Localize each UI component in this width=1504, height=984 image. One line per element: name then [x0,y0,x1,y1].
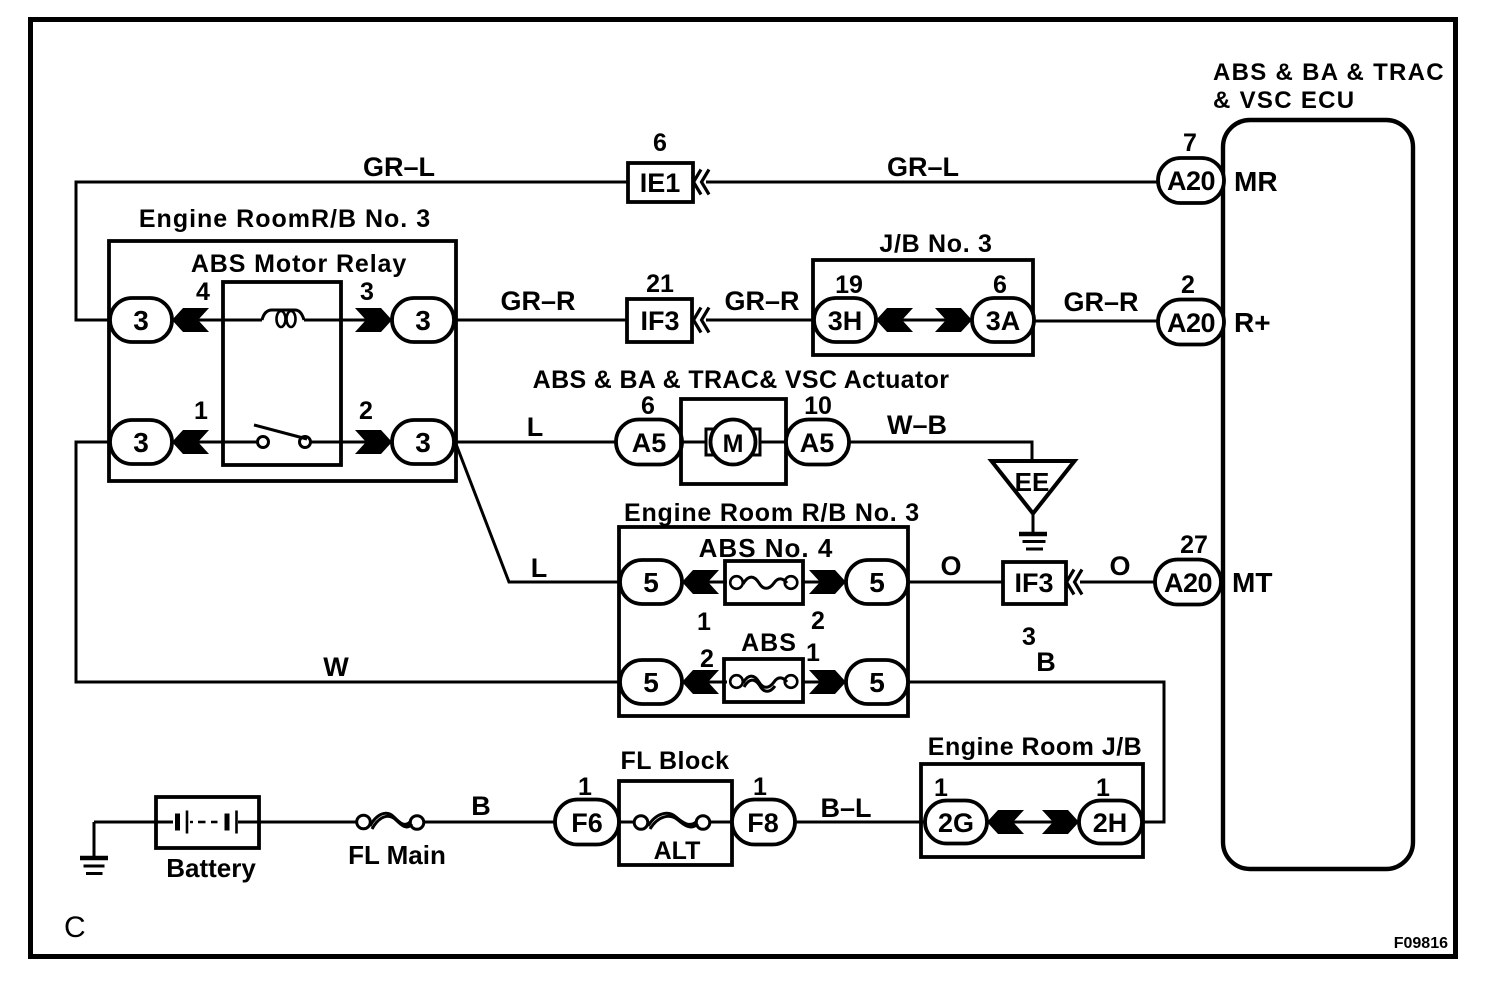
wire O segment 1 [908,581,1003,584]
svg-text:O: O [1109,551,1130,581]
svg-text:L: L [531,553,548,583]
svg-text:3: 3 [415,427,431,458]
connector oval 2H pin 1 [1079,774,1142,844]
connector oval 5 (ABS left, pin 2) [620,645,714,704]
svg-text:21: 21 [646,270,674,298]
svg-text:3: 3 [133,427,149,458]
arrow into pin 3 [355,308,392,332]
arrow into 2H [1042,810,1079,834]
fuse ABS No. 4 [725,561,803,604]
wire battery to FL Main [259,821,357,824]
svg-text:7: 7 [1183,129,1197,157]
svg-text:6: 6 [641,392,655,420]
svg-text:ABS & BA & TRAC& VSC Actuator: ABS & BA & TRAC& VSC Actuator [533,366,950,394]
svg-text:& VSC ECU: & VSC ECU [1213,87,1355,114]
connector chevrons at IF3 [694,308,710,333]
svg-text:5: 5 [869,567,885,598]
ground EE triangle [992,461,1075,514]
connector oval 3 (relay pin 4, top-left) [110,278,210,342]
svg-text:6: 6 [993,271,1007,299]
pin 7 connector A20, ECU terminal MR [1158,129,1278,203]
svg-text:A5: A5 [632,428,667,458]
svg-text:B: B [1036,647,1056,677]
svg-text:F09816: F09816 [1394,935,1448,952]
svg-text:2: 2 [1181,271,1195,299]
svg-text:10: 10 [804,392,832,420]
connector oval 3H pin 19 [814,271,876,342]
svg-text:3H: 3H [828,306,863,336]
wire W-B to ground [849,442,1032,461]
junction block: Engine Room R/B No. 3 (relay) [109,205,456,481]
arrow into pin 2 [355,430,392,454]
svg-text:MR: MR [1234,166,1278,197]
svg-text:5: 5 [643,567,659,598]
wire relay coil right [304,319,392,322]
arrow into left 5 (row2) [682,670,719,694]
wire O segment 2 [1080,581,1155,584]
arrow into pin 4 [172,308,209,332]
relay coil [262,310,304,327]
svg-text:A5: A5 [800,428,835,458]
connector oval A5 pin 6 [616,392,682,465]
svg-text:19: 19 [835,271,863,299]
svg-text:Battery: Battery [166,853,256,883]
svg-text:W: W [323,652,349,682]
wire W [76,442,620,682]
junction block: J/B No. 3 [813,230,1033,355]
svg-text:ALT: ALT [654,837,701,865]
wire diagonal L to ABS No.4 [456,444,620,582]
svg-text:2G: 2G [938,808,974,838]
svg-text:2: 2 [359,397,373,425]
wire GR-R segment 2 [706,319,814,322]
svg-text:IE1: IE1 [640,168,681,198]
svg-text:M: M [723,430,744,458]
fuse ABS [724,659,803,702]
svg-text:3: 3 [360,278,374,306]
svg-text:27: 27 [1180,531,1208,559]
svg-text:A20: A20 [1167,166,1215,196]
svg-text:F6: F6 [571,808,603,838]
svg-text:3A: 3A [986,306,1021,336]
wire GR-R segment 1 [454,319,628,322]
ground symbol below EE [1019,514,1047,550]
svg-text:5: 5 [869,667,885,698]
wire motor right [760,441,786,444]
arrow into right 5 (row2) [809,670,846,694]
svg-text:FL Block: FL Block [620,747,729,775]
arrow into left 5 (row1) [682,570,719,594]
svg-text:GR–L: GR–L [887,152,959,182]
relay switch contacts [254,425,311,448]
svg-text:1: 1 [194,397,208,425]
svg-text:1: 1 [697,608,711,636]
connector IE1 pin 6 [628,129,693,202]
connector oval A5 pin 10 [786,392,849,465]
wire to switch [172,441,257,444]
svg-text:FL Main: FL Main [348,840,446,870]
wire between 3H and 3A [876,319,972,322]
wire relay coil left [172,319,262,322]
connector oval 3 (relay pin 3, top-right) [360,278,454,342]
wire L from relay pin 2 [454,441,616,444]
fusible link FL Main [348,813,446,870]
connector oval F8 pin 1 [732,773,795,845]
connector oval F6 pin 1 [555,773,619,845]
wire GR-R segment 3 [1034,320,1158,323]
wire B bottom [424,821,555,824]
connector IF3 pin 3 [1003,562,1066,651]
connector oval 3 (relay pin 1, bottom-left) [110,397,208,464]
svg-text:3: 3 [133,305,149,336]
svg-text:2H: 2H [1093,808,1128,838]
connector oval 5 (ABS right, pin 1) [806,639,908,704]
connector oval 5 (ABS No.4 left, pin 1) [620,560,711,636]
pin 27 connector A20, ECU terminal MT [1155,531,1272,605]
svg-text:1: 1 [806,639,820,667]
wire row2 left [682,681,727,684]
wire B [908,682,1164,822]
svg-text:C: C [64,911,86,944]
wire row1 left [682,581,727,584]
connector oval 2G pin 1 [925,774,987,844]
svg-text:R+: R+ [1234,307,1271,338]
arrow into 2G [987,810,1024,834]
motor brush bracket left [706,429,714,455]
svg-text:A20: A20 [1167,308,1215,338]
svg-text:EE: EE [1015,467,1050,497]
svg-text:GR–R: GR–R [1063,287,1138,317]
svg-text:6: 6 [653,129,667,157]
ECU U1: ABS & BA & TRAC & VSC ECU [1213,59,1445,869]
svg-text:ABS No. 4: ABS No. 4 [699,533,834,563]
svg-text:GR–L: GR–L [363,152,435,182]
arrow into right 5 (row1) [809,570,846,594]
svg-text:1: 1 [578,773,592,801]
svg-text:4: 4 [196,278,210,306]
connector chevrons at IF3 (2) [1067,570,1083,595]
svg-text:IF3: IF3 [640,306,679,336]
svg-text:GR–R: GR–R [500,286,575,316]
svg-text:3: 3 [415,305,431,336]
battery B1 [156,797,259,883]
svg-text:W–B: W–B [887,410,947,440]
svg-text:1: 1 [753,773,767,801]
arrow into pin 1 [172,430,209,454]
svg-text:5: 5 [643,667,659,698]
svg-text:1: 1 [934,774,948,802]
svg-text:Engine Room R/B No. 3: Engine Room R/B No. 3 [624,499,920,527]
wire into motor left [682,441,706,444]
connector oval 5 (ABS No.4 right, pin 2) [811,560,908,635]
pin 2 connector A20, ECU terminal R+ [1158,271,1271,345]
junction block: Engine Room J/B [921,733,1143,857]
motor brush bracket right [752,429,760,455]
fusible link ALT [619,813,732,865]
arrow into 3A [935,308,972,332]
connector chevrons at IE1 [694,170,710,195]
wire B-L [795,821,925,824]
svg-text:Engine RoomR/B No. 3: Engine RoomR/B No. 3 [139,205,431,233]
svg-text:MT: MT [1232,567,1272,598]
actuator box [681,399,786,484]
connector oval 3A pin 6 [972,271,1034,342]
junction block: Engine Room R/B No. 3 (fuses) [619,499,920,716]
wire switch to pin 2 [311,441,392,444]
svg-text:1: 1 [1096,774,1110,802]
svg-text:ABS: ABS [741,629,797,657]
svg-text:IF3: IF3 [1014,568,1053,598]
wire row1 right [804,581,846,584]
wire between 2G and 2H [987,821,1079,824]
svg-text:ABS & BA & TRAC: ABS & BA & TRAC [1213,59,1445,86]
wire GR-L left segment [76,182,628,320]
wire ground to battery [94,821,156,824]
relay: ABS Motor Relay [191,250,407,465]
wire GR-L right segment [706,181,1158,184]
arrow into 3H [876,308,913,332]
motor M1 [711,420,756,465]
svg-text:2: 2 [700,645,714,673]
svg-text:B–L: B–L [820,793,871,823]
wire row2 right [804,681,846,684]
svg-text:2: 2 [811,607,825,635]
svg-text:B: B [471,791,491,821]
svg-text:F8: F8 [747,808,779,838]
FL Block [619,747,732,865]
connector IF3 pin 21 [627,270,692,342]
svg-text:ABS Motor Relay: ABS Motor Relay [191,250,407,278]
connector oval 3 (relay pin 2, bottom-right) [359,397,454,464]
ground G1 (battery) [80,822,108,874]
svg-text:O: O [940,551,961,581]
svg-text:J/B No. 3: J/B No. 3 [879,230,992,258]
svg-text:GR–R: GR–R [724,286,799,316]
svg-text:A20: A20 [1164,568,1212,598]
svg-text:L: L [527,412,544,442]
svg-text:Engine Room J/B: Engine Room J/B [928,733,1142,761]
svg-text:3: 3 [1022,623,1036,651]
